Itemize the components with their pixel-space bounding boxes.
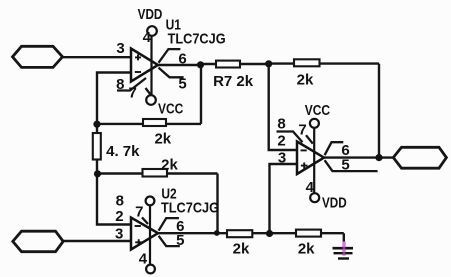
svg-text:7: 7 [135, 204, 143, 221]
svg-text:3: 3 [278, 149, 286, 166]
svg-text:2k: 2k [297, 71, 314, 88]
svg-text:VCC: VCC [305, 102, 330, 119]
svg-text:5: 5 [341, 156, 349, 173]
svg-text:VDD: VDD [138, 6, 163, 23]
svg-text:3: 3 [115, 226, 123, 243]
svg-text:6: 6 [178, 51, 186, 68]
svg-text:2k: 2k [233, 241, 250, 258]
svg-text:3: 3 [116, 40, 124, 57]
svg-text:7: 7 [129, 84, 137, 101]
svg-text:5: 5 [176, 232, 184, 249]
svg-text:4. 7k: 4. 7k [106, 143, 140, 160]
svg-text:VDD: VDD [322, 194, 347, 211]
svg-text:7: 7 [298, 121, 306, 138]
svg-text:VCC: VCC [158, 100, 183, 117]
svg-text:2k: 2k [154, 131, 171, 148]
svg-text:TLC7CJG: TLC7CJG [161, 198, 219, 215]
svg-text:8: 8 [277, 116, 285, 133]
svg-text:8: 8 [116, 192, 124, 209]
svg-text:8: 8 [116, 76, 124, 93]
svg-text:2k: 2k [161, 156, 178, 173]
svg-text:2: 2 [115, 208, 123, 225]
svg-text:5: 5 [178, 76, 186, 93]
svg-text:2: 2 [277, 132, 285, 149]
svg-text:2k: 2k [298, 241, 315, 258]
svg-text:R7 2k: R7 2k [213, 73, 254, 90]
svg-text:4: 4 [306, 179, 315, 196]
svg-text:TLC7CJG: TLC7CJG [168, 29, 226, 46]
svg-text:4: 4 [139, 250, 148, 267]
svg-text:4: 4 [143, 29, 152, 46]
